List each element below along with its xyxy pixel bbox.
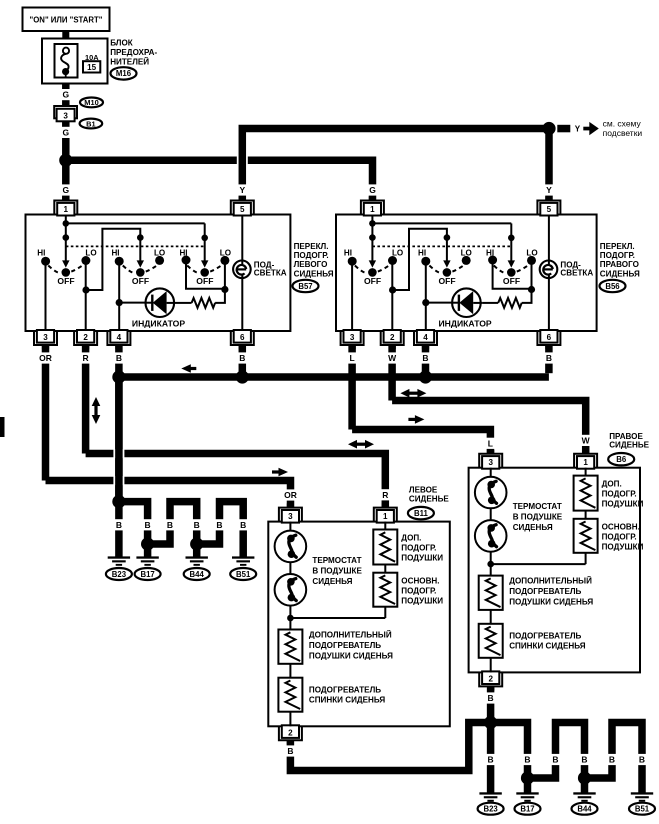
svg-text:B: B bbox=[216, 520, 222, 530]
svg-text:ПРЕДОХРА-: ПРЕДОХРА- bbox=[110, 48, 157, 57]
svg-text:LO: LO bbox=[461, 248, 472, 257]
svg-text:ПОДУШКИ СИДЕНЬЯ: ПОДУШКИ СИДЕНЬЯ bbox=[309, 652, 393, 661]
svg-text:ПОДОГР.: ПОДОГР. bbox=[600, 251, 635, 260]
svg-text:W: W bbox=[582, 436, 591, 446]
svg-text:HI: HI bbox=[111, 248, 119, 257]
svg-text:ИНДИКАТОР: ИНДИКАТОР bbox=[439, 319, 492, 329]
svg-text:3: 3 bbox=[43, 333, 48, 342]
svg-text:ПОДУШКИ: ПОДУШКИ bbox=[602, 500, 644, 509]
svg-text:ПРАВОЕ: ПРАВОЕ bbox=[609, 432, 643, 441]
svg-text:ПОДОГРЕВАТЕЛЬ: ПОДОГРЕВАТЕЛЬ bbox=[509, 632, 581, 641]
svg-text:ПЕРЕКЛ.: ПЕРЕКЛ. bbox=[600, 242, 635, 251]
svg-text:B6: B6 bbox=[616, 455, 627, 464]
svg-text:B44: B44 bbox=[577, 805, 592, 814]
svg-text:HI: HI bbox=[418, 248, 426, 257]
svg-text:БЛОК: БЛОК bbox=[110, 39, 133, 48]
svg-text:ПОДОГР.: ПОДОГР. bbox=[294, 251, 329, 260]
svg-text:G: G bbox=[369, 185, 376, 195]
svg-text:СВЕТКА: СВЕТКА bbox=[254, 269, 287, 278]
svg-text:СВЕТКА: СВЕТКА bbox=[560, 269, 593, 278]
svg-text:B11: B11 bbox=[414, 509, 429, 518]
svg-text:OFF: OFF bbox=[196, 276, 213, 286]
svg-text:СИДЕНЬЯ: СИДЕНЬЯ bbox=[513, 523, 553, 532]
svg-text:HI: HI bbox=[37, 248, 45, 257]
svg-text:ИНДИКАТОР: ИНДИКАТОР bbox=[132, 319, 185, 329]
svg-text:ОСНОВН.: ОСНОВН. bbox=[401, 577, 439, 586]
svg-text:СПИНКИ СИДЕНЬЯ: СПИНКИ СИДЕНЬЯ bbox=[309, 695, 386, 704]
svg-text:СИДЕНЬЯ: СИДЕНЬЯ bbox=[312, 577, 352, 586]
svg-text:3: 3 bbox=[288, 512, 293, 521]
svg-text:ПОДУШКИ СИДЕНЬЯ: ПОДУШКИ СИДЕНЬЯ bbox=[509, 598, 593, 607]
svg-text:OFF: OFF bbox=[503, 276, 520, 286]
svg-text:B23: B23 bbox=[483, 805, 498, 814]
svg-text:ПОДОГР.: ПОДОГР. bbox=[602, 533, 637, 542]
svg-text:B: B bbox=[167, 520, 173, 530]
svg-text:B1: B1 bbox=[86, 119, 95, 128]
svg-text:HI: HI bbox=[486, 248, 494, 257]
svg-text:НИТЕЛЕЙ: НИТЕЛЕЙ bbox=[110, 58, 149, 67]
svg-text:В ПОДУШКЕ: В ПОДУШКЕ bbox=[513, 513, 563, 522]
svg-text:B: B bbox=[581, 755, 587, 765]
svg-text:ДОП.: ДОП. bbox=[602, 480, 622, 489]
svg-text:15: 15 bbox=[87, 63, 97, 72]
svg-text:СИДЕНЬЕ: СИДЕНЬЕ bbox=[609, 441, 649, 450]
svg-text:G: G bbox=[62, 128, 69, 138]
svg-text:1: 1 bbox=[583, 458, 588, 467]
svg-text:ТЕРМОСТАТ: ТЕРМОСТАТ bbox=[312, 556, 361, 565]
svg-text:G: G bbox=[62, 90, 69, 100]
svg-text:ОСНОВН.: ОСНОВН. bbox=[602, 523, 640, 532]
svg-text:6: 6 bbox=[240, 333, 245, 342]
svg-text:R: R bbox=[83, 353, 89, 363]
svg-text:OFF: OFF bbox=[132, 276, 149, 286]
svg-text:3: 3 bbox=[488, 458, 493, 467]
svg-text:ЛЕВОЕ: ЛЕВОЕ bbox=[409, 486, 438, 495]
svg-text:B: B bbox=[552, 755, 558, 765]
svg-text:СПИНКИ СИДЕНЬЯ: СПИНКИ СИДЕНЬЯ bbox=[509, 642, 586, 651]
svg-text:подсветки: подсветки bbox=[603, 128, 643, 138]
svg-text:LO: LO bbox=[526, 248, 537, 257]
svg-text:ПОДОГР.: ПОДОГР. bbox=[401, 587, 436, 596]
svg-text:B17: B17 bbox=[520, 805, 534, 814]
svg-text:L: L bbox=[349, 353, 354, 363]
svg-text:ПОДОГР.: ПОДОГР. bbox=[401, 544, 436, 553]
svg-text:СИДЕНЬЯ: СИДЕНЬЯ bbox=[600, 269, 640, 278]
svg-text:B: B bbox=[639, 755, 645, 765]
svg-text:5: 5 bbox=[547, 205, 552, 214]
svg-text:OFF: OFF bbox=[364, 276, 381, 286]
svg-text:B: B bbox=[488, 755, 494, 765]
svg-text:LO: LO bbox=[220, 248, 231, 257]
svg-text:B51: B51 bbox=[236, 570, 251, 579]
svg-text:B: B bbox=[116, 353, 122, 363]
svg-text:M16: M16 bbox=[116, 69, 132, 78]
svg-text:B: B bbox=[145, 520, 151, 530]
svg-text:1: 1 bbox=[383, 512, 388, 521]
svg-text:B56: B56 bbox=[605, 282, 620, 291]
svg-text:ПОДОГРЕВАТЕЛЬ: ПОДОГРЕВАТЕЛЬ bbox=[309, 641, 381, 650]
svg-text:B57: B57 bbox=[298, 282, 312, 291]
svg-text:M10: M10 bbox=[84, 98, 98, 107]
svg-text:HI: HI bbox=[344, 248, 352, 257]
svg-text:LO: LO bbox=[392, 248, 403, 257]
svg-text:B17: B17 bbox=[140, 570, 154, 579]
svg-text:Y: Y bbox=[546, 185, 552, 195]
svg-text:B: B bbox=[609, 755, 615, 765]
svg-text:B: B bbox=[524, 755, 530, 765]
svg-text:В ПОДУШКЕ: В ПОДУШКЕ bbox=[312, 567, 362, 576]
svg-text:B44: B44 bbox=[190, 570, 205, 579]
svg-text:ПРАВОГО: ПРАВОГО bbox=[600, 260, 639, 269]
svg-text:3: 3 bbox=[63, 111, 68, 120]
svg-text:B: B bbox=[488, 693, 494, 703]
svg-text:ДОПОЛНИТЕЛЬНЫЙ: ДОПОЛНИТЕЛЬНЫЙ bbox=[309, 630, 392, 639]
svg-text:2: 2 bbox=[288, 729, 293, 738]
svg-text:L: L bbox=[488, 438, 493, 448]
svg-text:1: 1 bbox=[370, 205, 375, 214]
svg-text:4: 4 bbox=[117, 333, 122, 342]
svg-text:B: B bbox=[116, 520, 122, 530]
svg-text:OFF: OFF bbox=[57, 276, 74, 286]
svg-text:4: 4 bbox=[423, 333, 428, 342]
svg-text:B: B bbox=[422, 353, 428, 363]
svg-text:см. схему: см. схему bbox=[603, 119, 642, 129]
svg-text:B: B bbox=[239, 353, 245, 363]
svg-text:5: 5 bbox=[240, 205, 245, 214]
svg-text:ПЕРЕКЛ.: ПЕРЕКЛ. bbox=[294, 242, 329, 251]
svg-text:2: 2 bbox=[390, 333, 395, 342]
svg-text:Y: Y bbox=[239, 185, 245, 195]
svg-text:B: B bbox=[287, 746, 293, 756]
svg-text:OR: OR bbox=[284, 490, 297, 500]
svg-text:2: 2 bbox=[488, 675, 493, 684]
svg-text:ПОДОГРЕВАТЕЛЬ: ПОДОГРЕВАТЕЛЬ bbox=[309, 686, 381, 695]
svg-text:HI: HI bbox=[179, 248, 187, 257]
svg-text:OR: OR bbox=[39, 353, 52, 363]
svg-text:B: B bbox=[194, 520, 200, 530]
svg-text:LO: LO bbox=[154, 248, 165, 257]
svg-text:СИДЕНЬЯ: СИДЕНЬЯ bbox=[294, 269, 334, 278]
svg-text:ПОДУШКИ: ПОДУШКИ bbox=[602, 543, 644, 552]
svg-text:G: G bbox=[62, 185, 69, 195]
svg-text:B: B bbox=[546, 353, 552, 363]
svg-text:ДОП.: ДОП. bbox=[401, 534, 421, 543]
svg-text:3: 3 bbox=[350, 333, 355, 342]
svg-text:ЛЕВОГО: ЛЕВОГО bbox=[294, 260, 328, 269]
svg-text:B23: B23 bbox=[112, 570, 127, 579]
svg-text:2: 2 bbox=[83, 333, 88, 342]
svg-text:ПОДУШКИ: ПОДУШКИ bbox=[401, 553, 443, 562]
svg-text:W: W bbox=[388, 353, 397, 363]
svg-text:ПОДУШКИ: ПОДУШКИ bbox=[401, 596, 443, 605]
svg-text:ПОДОГР.: ПОДОГР. bbox=[602, 490, 637, 499]
svg-text:R: R bbox=[382, 490, 388, 500]
svg-text:B51: B51 bbox=[635, 805, 650, 814]
svg-text:СИДЕНЬЕ: СИДЕНЬЕ bbox=[409, 495, 449, 504]
svg-text:1: 1 bbox=[64, 205, 69, 214]
svg-text:LO: LO bbox=[85, 248, 96, 257]
svg-text:B: B bbox=[240, 520, 246, 530]
svg-text:ТЕРМОСТАТ: ТЕРМОСТАТ bbox=[513, 502, 562, 511]
svg-text:"ON" ИЛИ "START": "ON" ИЛИ "START" bbox=[30, 16, 103, 25]
svg-text:OFF: OFF bbox=[439, 276, 456, 286]
svg-text:Y: Y bbox=[575, 125, 581, 134]
svg-text:ДОПОЛНИТЕЛЬНЫЙ: ДОПОЛНИТЕЛЬНЫЙ bbox=[509, 576, 592, 585]
svg-text:ПОДОГРЕВАТЕЛЬ: ПОДОГРЕВАТЕЛЬ bbox=[509, 587, 581, 596]
svg-text:6: 6 bbox=[547, 333, 552, 342]
